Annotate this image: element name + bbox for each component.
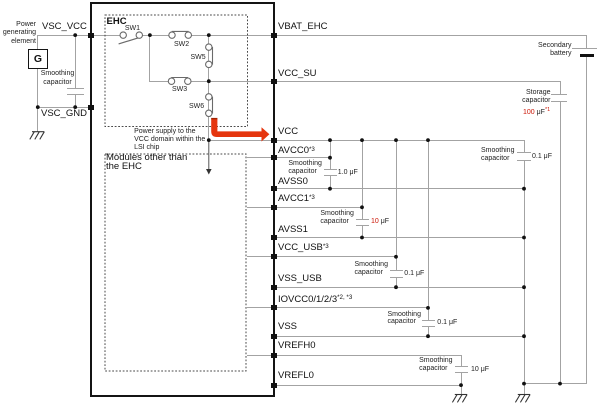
wire capacitor column C1 upper (VCC to 1.0uF) — [330, 140, 331, 170]
capacitor C5 10uF top plate — [455, 366, 468, 367]
wire row VCC_USB — [247, 256, 397, 257]
ground VSC — [30, 132, 45, 140]
wire SW1 junction drop to SW3 row — [149, 35, 150, 82]
label Smoothing capacitor C5 — [419, 357, 452, 373]
junction AVSS0 rail — [522, 187, 526, 191]
wire capacitor column C4 upper (VCC to 0.1uF IOVCC) — [428, 140, 429, 320]
junction VCC rail C2 — [360, 138, 364, 142]
label value 0.1 uF (VCC) — [532, 153, 552, 161]
junction ground tie storage — [558, 382, 562, 386]
junction VREFL0 — [459, 383, 463, 387]
pad VSC_VCC — [88, 33, 94, 38]
capacitor C3 0.1uF top plate — [390, 270, 403, 271]
ground common rail — [515, 395, 530, 403]
wire SW3 to VCC_SU and storage capacitor — [191, 81, 561, 82]
wire VSC smoothing capacitor branch upper — [75, 35, 76, 89]
label EHC — [107, 16, 127, 27]
wire leader to battery — [572, 48, 578, 49]
wire row IOVCC — [247, 307, 429, 308]
junction VCC rail C1 — [328, 138, 332, 142]
wire G box top lead — [37, 35, 38, 49]
label Power supply to the VCC domain — [134, 128, 205, 151]
arrow to modules (power feed down) — [206, 140, 212, 175]
switch SW2 contacts and bar — [169, 31, 192, 38]
wire row AVCC1 — [247, 207, 363, 208]
battery BT1 positive plate — [577, 48, 598, 49]
switch SW3 contacts and bar — [168, 78, 191, 85]
label VREFH0 — [278, 341, 315, 351]
label value 1.0 uF — [338, 169, 358, 177]
junction VSC_VCC cap branch — [73, 33, 77, 37]
label Storage capacitor — [522, 89, 550, 106]
capacitor C1 1.0uF top plate — [324, 169, 337, 170]
capacitor C4 0.1uF bottom plate — [422, 326, 435, 327]
wire VSC_VCC horizontal — [38, 35, 92, 36]
junction VCC rail C3 — [394, 138, 398, 142]
LSI chip outline — [90, 2, 275, 397]
label SW3 — [172, 86, 187, 94]
capacitor VSC smoothing top plate — [67, 88, 84, 89]
pad VCC_USB — [271, 254, 277, 259]
pad AVSS0 — [271, 186, 277, 191]
wire row AVCC0 — [247, 157, 331, 158]
junction VSS_USB rail — [522, 285, 526, 289]
label value 0.1 uF (USB) — [404, 270, 424, 278]
wire SW2 to VBAT_EHC and battery — [191, 35, 586, 36]
wire row VSS_USB — [272, 287, 525, 288]
label VCC — [278, 127, 298, 137]
label VREFL0 — [278, 371, 314, 381]
pad VSS — [271, 334, 277, 339]
label SW1 — [125, 25, 140, 33]
wire capacitor column C2 lower (10uF to AVSS1) — [362, 225, 363, 237]
capacitor storage top plate — [551, 94, 567, 95]
label VSC_GND — [41, 109, 87, 119]
pad VCC_SU — [271, 79, 277, 84]
wire row AVSS1 — [272, 237, 525, 238]
label Smoothing capacitor C4 — [388, 311, 421, 327]
label VSS — [278, 322, 297, 332]
junction VCC rail C4 — [426, 138, 430, 142]
switch SW5 contacts and bar — [206, 44, 213, 68]
pad AVSS1 — [271, 235, 277, 240]
wire SW5 middle — [208, 50, 209, 61]
label VSS_USB — [278, 274, 322, 284]
label Smoothing capacitor C3 — [355, 261, 388, 277]
junction VSC_GND cap branch — [73, 105, 77, 109]
label value 0.1 uF (IOVCC) — [437, 319, 457, 327]
capacitor C6 0.1uF bottom plate — [517, 160, 531, 161]
junction VSS rail — [522, 334, 526, 338]
label VSC_VCC — [42, 22, 87, 32]
pad VSS_USB — [271, 285, 277, 290]
wire VSC smoothing capacitor branch lower — [75, 94, 76, 108]
capacitor C3 0.1uF bottom plate — [390, 277, 403, 278]
junction SW3 output — [207, 79, 211, 83]
junction AVSS1 cap — [360, 236, 364, 240]
label Modules other than the EHC — [106, 153, 187, 172]
junction VCC_USB — [394, 255, 398, 259]
wire SW1 to SW2 — [142, 35, 169, 36]
pad AVCC0 — [271, 155, 277, 160]
wire row VREFH0 — [247, 355, 462, 356]
Modules other than the EHC dashed box — [105, 154, 246, 371]
wire capacitor column C3 lower (0.1uF to VSS_USB) — [396, 277, 397, 287]
battery BT1 negative plate — [580, 54, 594, 56]
pad AVCC1 — [271, 205, 277, 210]
wire capacitor column C3 upper (VCC to 0.1uF USB) — [396, 140, 397, 271]
wire bottom ground tie — [524, 383, 587, 384]
ground VREFL0 — [452, 395, 467, 403]
label VCC_USB — [278, 243, 329, 254]
wire capacitor column C1 lower (1.0uF to AVSS0) — [330, 175, 331, 189]
junction SW2 output — [207, 33, 211, 37]
wire SW5 top lead — [208, 35, 209, 44]
pad IOVCC — [271, 305, 277, 310]
wire VSC_GND horizontal — [38, 107, 92, 108]
junction ground tie left — [522, 382, 526, 386]
switch SW1 lever — [119, 37, 141, 44]
label AVCC1 — [278, 194, 315, 205]
label VCC_SU — [278, 69, 317, 79]
capacitor C4 0.1uF top plate — [422, 320, 435, 321]
junction AVSS0 cap — [328, 187, 332, 191]
red arrow VCC power path — [211, 119, 269, 142]
pad VSC_GND — [88, 105, 94, 110]
label VBAT_EHC — [278, 22, 327, 32]
wire capacitor column C5 lower (10uF to VREFL0 and ground) — [461, 372, 462, 394]
label G — [28, 53, 49, 65]
label Secondary battery — [538, 42, 571, 58]
capacitor C5 10uF bottom plate — [455, 372, 468, 373]
wire SW6 middle — [208, 100, 209, 110]
switch SW1 contacts — [120, 32, 143, 38]
label value 100 uF storage — [523, 109, 550, 117]
wire secondary battery column lower — [586, 57, 587, 384]
wire SW6 top lead — [208, 81, 209, 94]
wire row VSS — [272, 336, 525, 337]
wire SW6 bottom lead to VCC — [208, 116, 209, 140]
wire capacitor column C5 upper (VREFH0 to 10uF) — [461, 355, 462, 367]
capacitor C6 0.1uF top plate — [517, 152, 531, 153]
label Smoothing capacitor C6 — [481, 147, 514, 164]
junction SW1 output — [148, 33, 152, 37]
G box (power generating element) — [28, 49, 49, 69]
wire storage capacitor column upper — [560, 81, 561, 95]
label value 10 uF red — [371, 218, 389, 226]
pad VCC — [271, 138, 277, 143]
pad VBAT_EHC — [271, 33, 277, 38]
wire VSC_VCC pad to SW1 — [91, 35, 121, 36]
capacitor storage bottom plate — [551, 101, 567, 102]
label SW6 — [189, 103, 204, 111]
wire secondary battery column upper — [586, 35, 587, 49]
wire row AVSS0 — [272, 188, 525, 189]
wire to SW3 — [149, 81, 168, 82]
wire capacitor column C2 upper (VCC to 10uF) — [362, 140, 363, 219]
label SW5 — [191, 54, 206, 62]
junction VSC_GND left — [36, 105, 40, 109]
label SW2 — [174, 41, 189, 49]
wire G box bottom lead to ground — [37, 68, 38, 132]
label value 10 uF (VREF) — [471, 366, 489, 374]
pad VREFL0 — [271, 383, 277, 388]
label Smoothing capacitor (VSC) — [40, 69, 75, 88]
wire common ground rail (0.1uF down to bottom tie) — [524, 160, 525, 395]
wire VCC right rail upper (to 0.1uF) — [524, 140, 525, 153]
label IOVCC0/1/2/3 — [278, 295, 352, 306]
junction AVCC0 — [328, 156, 332, 160]
wire row VREFL0 — [272, 385, 462, 386]
junction AVCC1 — [360, 205, 364, 209]
junction VSS cap — [426, 334, 430, 338]
wire row VCC — [208, 140, 524, 141]
label Smoothing capacitor C2 — [320, 210, 353, 226]
junction VSS_USB cap — [394, 285, 398, 289]
wire storage capacitor column lower — [560, 101, 561, 383]
pad VREFH0 — [271, 353, 277, 358]
wire capacitor column C4 lower (0.1uF to VSS) — [428, 326, 429, 336]
junction VCC feed — [207, 138, 211, 142]
switch SW6 contacts and bar — [206, 94, 213, 117]
junction IOVCC — [426, 306, 430, 310]
label Smoothing capacitor C1 — [288, 160, 321, 176]
label AVSS0 — [278, 177, 308, 187]
label AVSS1 — [278, 225, 308, 235]
wire SW5 bottom lead — [208, 68, 209, 82]
junction AVSS1 rail — [522, 236, 526, 240]
capacitor VSC smoothing bottom plate — [67, 94, 84, 95]
capacitor C2 10uF top plate — [356, 219, 369, 220]
label AVCC0 — [278, 146, 315, 157]
capacitor C2 10uF bottom plate — [356, 225, 369, 226]
label Power generating element — [0, 21, 36, 47]
capacitor C1 1.0uF bottom plate — [324, 175, 337, 176]
